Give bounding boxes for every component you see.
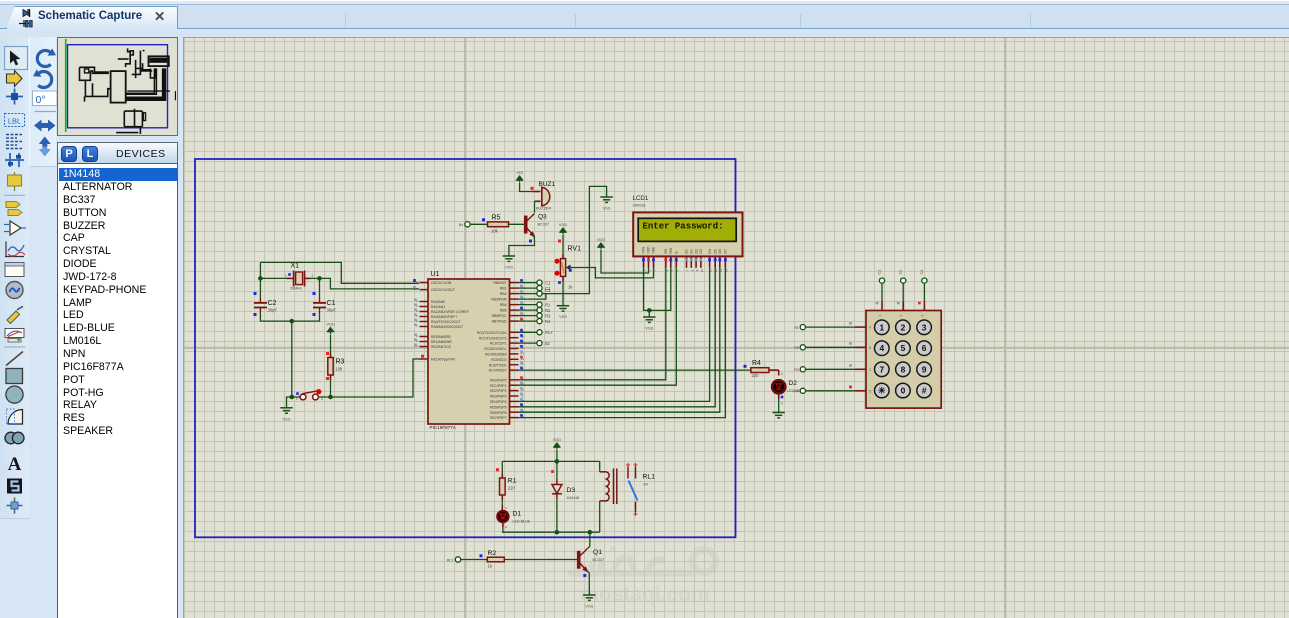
wire R3 bottom to MCLR net [330, 380, 332, 397]
wire crystal left [259, 262, 261, 298]
svg-text:RC4/SDI/SDA: RC4/SDI/SDA [485, 353, 507, 357]
toolbar separator 2 [4, 346, 25, 348]
svg-text:RB4: RB4 [500, 303, 507, 307]
toolbar graph mode [5, 242, 24, 257]
wire LCD D4 to U1 RD4 [519, 268, 710, 402]
svg-text:RE0/AN5/RD: RE0/AN5/RD [431, 335, 452, 339]
crystal X1 [287, 277, 294, 279]
terminal R3t [537, 313, 542, 318]
svg-text:RD2/PSP2: RD2/PSP2 [490, 389, 507, 393]
svg-text:VDD: VDD [597, 237, 606, 242]
svg-text:2: 2 [321, 397, 323, 401]
svg-text:Bz: Bz [545, 341, 550, 346]
wire VDD to rail [556, 450, 558, 461]
watermark mostaql [571, 546, 716, 606]
LCD pins [642, 246, 729, 272]
svg-text:MCLR/Vpp/THV: MCLR/Vpp/THV [431, 358, 456, 362]
wire RB6 to terminal R3t [519, 315, 537, 317]
ground top middle [600, 197, 612, 202]
capacitor C1 [313, 298, 326, 313]
svg-text:RB6/PGC: RB6/PGC [492, 314, 507, 318]
svg-text:D1: D1 [690, 249, 694, 253]
svg-text:R4: R4 [794, 390, 799, 394]
svg-text:RB3/PGM: RB3/PGM [491, 298, 506, 302]
svg-text:5: 5 [901, 343, 906, 353]
terminal C2 [537, 286, 542, 291]
minimap viewport line [65, 39, 67, 132]
power VDD relay rail [554, 443, 560, 450]
svg-text:RE2/AN7/CS: RE2/AN7/CS [431, 345, 452, 349]
wire R4 to D2 [769, 369, 779, 371]
svg-text:Bz: Bz [459, 223, 463, 227]
toolbar select mode (pressed) [5, 47, 28, 70]
svg-text:D5: D5 [713, 249, 717, 253]
svg-text:6: 6 [922, 343, 927, 353]
toolbar junction dot mode [6, 89, 23, 105]
node VSS RW junction [647, 308, 652, 313]
svg-text:RA1/AN1: RA1/AN1 [431, 305, 445, 309]
toolbar tape mode [5, 263, 24, 277]
svg-text:RC3/SCK/SCL: RC3/SCK/SCL [484, 347, 506, 351]
LED D2 [772, 380, 785, 393]
svg-text:VDD: VDD [326, 322, 335, 327]
resistor R4 [751, 368, 769, 373]
terminal BZ at R5 [465, 222, 470, 227]
wire C1 top branch [319, 278, 321, 298]
wire RV1 bottom to ground [562, 282, 564, 306]
svg-text:9: 9 [922, 364, 927, 374]
svg-text:RA5/AN4/SS/C2OUT: RA5/AN4/SS/C2OUT [431, 325, 463, 329]
toolbar wire label mode [5, 114, 25, 127]
ground Q3 [503, 256, 515, 261]
svg-text:RC2/CCP1: RC2/CCP1 [490, 342, 507, 346]
wire RB3 jog [519, 294, 546, 300]
svg-text:VSS: VSS [603, 206, 611, 211]
wire R4row to keypad [806, 390, 855, 392]
keypad terminal C3 column 3 [922, 278, 927, 283]
keypad terminal C2 column 2 [901, 278, 906, 283]
svg-text:OSC2/CLKOUT: OSC2/CLKOUT [431, 288, 455, 292]
wire C2 column [902, 284, 904, 302]
wire relay bottom rail [502, 531, 599, 533]
resistor R2 [487, 557, 504, 562]
keypad terminal R4 row D [800, 388, 805, 393]
keypad KEYPAD-PHONE body [866, 311, 941, 409]
node crystal right junction [317, 276, 322, 281]
svg-text:R2: R2 [794, 346, 799, 350]
svg-text:R3: R3 [336, 359, 345, 366]
wire Q3 emitter to ground [509, 236, 535, 256]
svg-text:C1: C1 [545, 280, 551, 285]
svg-text:220: 220 [508, 486, 516, 491]
wire LCD VSS RW to ground [644, 268, 671, 311]
svg-text:R2: R2 [545, 308, 551, 313]
toolbar component mode [7, 71, 23, 87]
wire RC7 to R4 [519, 369, 751, 371]
LED D1 LED-BLUE [497, 511, 508, 522]
wire +5V to buzzer [520, 183, 532, 192]
svg-text:R4: R4 [752, 360, 761, 367]
svg-text:Q3: Q3 [538, 214, 547, 221]
wire RLY terminal to R2 [461, 559, 488, 561]
wire R2 to keypad [806, 346, 855, 348]
toolbar rotate anticlockwise [38, 72, 52, 88]
svg-text:D2: D2 [694, 249, 698, 253]
svg-text:D3: D3 [567, 487, 576, 494]
svg-text:RB2: RB2 [500, 292, 507, 296]
toolbar device pin mode [14, 172, 16, 191]
svg-text:1: 1 [285, 274, 287, 278]
keypad terminal R2 row B [800, 345, 805, 350]
IC U1 PIC16F877A body [428, 279, 510, 424]
terminal RLY at R2 [455, 557, 460, 562]
power VDD for LCD [598, 243, 604, 250]
wire R3 to keypad [806, 368, 855, 370]
svg-text:4: 4 [879, 343, 884, 353]
svg-text:1: 1 [878, 315, 882, 317]
svg-text:VSS: VSS [642, 246, 646, 254]
svg-text:OSC1/CLKIN: OSC1/CLKIN [431, 281, 452, 285]
svg-text:RS: RS [664, 248, 668, 253]
svg-text:VDD: VDD [647, 246, 651, 254]
svg-text:C2: C2 [268, 300, 277, 307]
ground crystal circuit [280, 408, 292, 413]
wire R1 to keypad [806, 326, 855, 328]
svg-text:A: A [8, 454, 22, 475]
svg-text:C1: C1 [878, 270, 882, 275]
toolbar angle box [33, 91, 58, 106]
tab bar [0, 6, 1289, 29]
svg-text:8: 8 [901, 364, 906, 374]
svg-text:2: 2 [901, 322, 906, 332]
ground RV1 [557, 306, 569, 311]
terminal RLY [537, 330, 542, 335]
resistor R3 [330, 353, 332, 358]
wire D3 bottom [556, 499, 558, 533]
svg-text:D3: D3 [699, 249, 703, 253]
svg-text:10k: 10k [336, 367, 344, 372]
terminal C1 [537, 280, 542, 285]
resistor R5 [470, 223, 487, 225]
wire D2 to ground [778, 394, 780, 399]
svg-text:B: B [869, 346, 871, 350]
wire RB4 to terminal R1t [519, 304, 537, 306]
svg-text:+5V: +5V [516, 170, 524, 175]
svg-text:30pF: 30pF [327, 308, 337, 313]
minimap sheet rect [68, 45, 168, 128]
toolbar current probe mode [5, 329, 24, 338]
svg-text:LBL: LBL [8, 117, 21, 126]
svg-text:VDD: VDD [553, 437, 562, 442]
svg-text:RL1: RL1 [643, 474, 656, 481]
wire Q1 collector [588, 532, 590, 548]
svg-text:X1: X1 [291, 263, 300, 270]
toolbar terminal mode [6, 202, 20, 208]
wire R2 to Q1 base [504, 559, 577, 561]
svg-text:C3: C3 [920, 270, 924, 275]
svg-text:BUZ1: BUZ1 [539, 181, 556, 188]
svg-text:D4: D4 [708, 249, 712, 253]
svg-text:✳: ✳ [878, 386, 886, 396]
wire VDD to R3 [330, 335, 332, 354]
svg-text:K: K [505, 506, 507, 510]
schematic capture tab [6, 6, 178, 29]
wire RC0 to terminal RLY [519, 331, 537, 333]
terminal C3 [537, 291, 542, 296]
wire C2 C1 bottom rail [260, 313, 319, 322]
U1 right pins [477, 279, 524, 420]
tab diode icon [15, 7, 41, 29]
svg-text:RE1/AN6/WR: RE1/AN6/WR [431, 340, 452, 344]
wire C1 column [881, 284, 883, 302]
svg-text:RC6/TX/CK: RC6/TX/CK [489, 363, 507, 367]
svg-text:PIC16F877A: PIC16F877A [430, 425, 457, 430]
toolbar voltage probe mode [7, 311, 20, 324]
wire LCD D6 to U1 RD6 [519, 268, 720, 412]
svg-text:Q1: Q1 [593, 549, 602, 556]
node D3 bottom junction [555, 530, 560, 535]
wire LCD RS to U1 RD0 [519, 268, 666, 380]
toolbar 2D box [6, 369, 23, 384]
svg-text:LM016L: LM016L [633, 204, 647, 208]
svg-text:C1: C1 [327, 300, 336, 307]
keypad terminal R3 row C [800, 367, 805, 372]
svg-text:K: K [781, 372, 783, 376]
svg-text:RD0/PSP0: RD0/PSP0 [490, 378, 507, 382]
svg-text:D1: D1 [513, 511, 522, 518]
devices list [57, 163, 178, 618]
wire LCD E to U1 RD1 [519, 268, 677, 385]
power VDD above R3 [327, 328, 333, 335]
wire relay top rail [502, 460, 599, 462]
svg-text:RV1: RV1 [568, 246, 582, 253]
wire VDD to RV1 [562, 235, 564, 254]
svg-text:RW: RW [669, 247, 673, 253]
svg-text:RC5/SDO: RC5/SDO [491, 358, 506, 362]
keypad keys [875, 320, 932, 398]
svg-text:BC337: BC337 [538, 223, 550, 227]
svg-text:R4: R4 [545, 319, 551, 324]
terminal BZ [537, 341, 542, 346]
svg-text:RA3/AN3/VREF+: RA3/AN3/VREF+ [431, 315, 457, 319]
svg-text:RA2/AN2/VREF-/CVREF: RA2/AN2/VREF-/CVREF [431, 310, 469, 314]
toolbar 2D symbol [7, 479, 22, 494]
wire RC2 to terminal BZ [519, 342, 537, 344]
svg-text:R2: R2 [488, 550, 497, 557]
svg-text:VSS: VSS [585, 604, 593, 609]
ground Q1 [583, 595, 595, 600]
node Q1 collector junction [588, 530, 593, 535]
svg-text:BUZZER: BUZZER [536, 207, 551, 211]
svg-text:0: 0 [901, 386, 906, 396]
terminal R2t [537, 308, 542, 313]
svg-text:LED-BLUE: LED-BLUE [513, 520, 531, 524]
sheet border [195, 159, 736, 537]
wire C3 column [923, 284, 925, 302]
svg-text:RB7/PGD: RB7/PGD [492, 320, 507, 324]
svg-text:RC7/RX/DT: RC7/RX/DT [489, 369, 507, 373]
wire R1 to D1 [501, 500, 503, 505]
svg-text:20MHz: 20MHz [290, 287, 302, 291]
svg-text:3: 3 [922, 322, 927, 332]
node rail VDD junction [555, 459, 560, 464]
toolbar 2D circle [6, 386, 23, 403]
wire RB2 to terminal C3 [519, 293, 537, 295]
major grid lines [464, 38, 466, 618]
transistor Q1 BC337 [578, 549, 588, 572]
toolbar flip vertical [39, 137, 51, 147]
diode D3 1N4148 [552, 480, 562, 499]
svg-text:A: A [505, 525, 507, 529]
devices header [57, 142, 178, 165]
wire D1 to bottom rail [502, 522, 504, 527]
svg-text:RB1: RB1 [500, 287, 507, 291]
svg-text:R1: R1 [545, 302, 551, 307]
wire LCD D5 to U1 RD5 [519, 268, 716, 407]
svg-text:30pF: 30pF [268, 308, 278, 313]
node crystal left junction [258, 276, 263, 281]
svg-text:RC0/T1OSO/T1CKI: RC0/T1OSO/T1CKI [477, 331, 507, 335]
svg-text:#: # [922, 386, 927, 396]
toolbar 2D line [6, 352, 23, 366]
svg-text:R5: R5 [492, 215, 501, 222]
svg-text:BC337: BC337 [593, 558, 605, 562]
wire D3 top [556, 461, 558, 479]
resistor R1 [501, 474, 503, 478]
terminal R4t [537, 319, 542, 324]
keypad terminal C1 column 1 [879, 278, 884, 283]
relay RL1 coil [599, 461, 601, 471]
minimap schematic marks [111, 71, 126, 103]
svg-text:1: 1 [296, 397, 298, 401]
wire RB0 to terminal C1 [519, 282, 537, 284]
svg-text:2: 2 [312, 274, 314, 278]
svg-text:RLY: RLY [447, 558, 454, 562]
svg-text:R1: R1 [508, 478, 517, 485]
wire C3 net to top ground [542, 186, 606, 293]
wire RV1 wiper to LCD VEE [567, 268, 654, 278]
svg-text:D2: D2 [789, 380, 798, 387]
svg-text:VSS: VSS [645, 326, 653, 331]
svg-text:C2: C2 [899, 270, 903, 275]
svg-text:D6: D6 [718, 249, 722, 253]
svg-text:A: A [781, 401, 783, 405]
svg-text:LCD1: LCD1 [633, 195, 649, 202]
toolbar text script mode [6, 134, 22, 136]
svg-text:RB5: RB5 [500, 309, 507, 313]
potentiometer RV1 [562, 254, 564, 259]
svg-text:VSS: VSS [282, 416, 290, 421]
svg-text:RD4/PSP4: RD4/PSP4 [490, 400, 507, 404]
toolbar separator 1 [4, 194, 25, 196]
wire R1 top [501, 461, 503, 473]
svg-text:RA4/T0CKI/C1OUT: RA4/T0CKI/C1OUT [431, 320, 461, 324]
svg-text:3: 3 [920, 315, 924, 317]
ground LCD [643, 317, 655, 322]
svg-text:U1: U1 [431, 271, 440, 278]
svg-text:RD5/PSP5: RD5/PSP5 [490, 405, 507, 409]
toolbar gate mode [10, 221, 21, 235]
wire RB1 to terminal C2 [519, 287, 537, 289]
svg-text:Enter Password:: Enter Password: [643, 221, 724, 231]
svg-text:VSS: VSS [505, 265, 513, 270]
wire crystal right [309, 277, 320, 279]
wire RB5 to terminal R2t [519, 309, 537, 311]
svg-text:R1: R1 [794, 326, 799, 330]
overview minimap panel [57, 37, 178, 136]
capacitor C2 [254, 298, 267, 313]
svg-text:D0: D0 [685, 249, 689, 253]
svg-text:1N4148: 1N4148 [567, 496, 580, 500]
svg-text:VDD: VDD [559, 222, 568, 227]
svg-text:10k: 10k [491, 229, 499, 234]
toolbar flip horizontal [34, 120, 56, 132]
svg-text:RD3/PSP3: RD3/PSP3 [490, 395, 507, 399]
window top strip [0, 0, 1289, 5]
U1 left pins [414, 280, 469, 362]
svg-text:VSS: VSS [559, 314, 567, 319]
svg-text:VEE: VEE [652, 246, 656, 254]
power +5V [516, 176, 522, 183]
buzzer BUZ1 [532, 191, 541, 193]
relay RL1 switch [628, 467, 636, 512]
toolbar separator [35, 111, 57, 113]
button SW reset [300, 394, 306, 400]
svg-text:RD6/PSP6: RD6/PSP6 [490, 411, 507, 415]
svg-text:RA0/AN0: RA0/AN0 [431, 300, 445, 304]
toolbar 2D marker [7, 498, 23, 514]
wire OSC1 top route [260, 262, 419, 283]
wire Q1 emitter to ground [587, 571, 589, 595]
transistor Q3 BC337 [525, 214, 535, 237]
svg-text:7: 7 [879, 364, 884, 374]
keypad terminal R1 row A [800, 325, 805, 330]
wire rail to button [291, 321, 293, 397]
wire RB7 to terminal R4t [519, 320, 537, 322]
svg-text:2: 2 [899, 315, 903, 317]
wire OSC2 route [320, 278, 420, 289]
MCLR red square [421, 355, 424, 358]
toolbar 2D arc [8, 410, 23, 425]
svg-text:220: 220 [752, 373, 760, 378]
toolbar 2D closed path [5, 432, 17, 444]
node bottom rail junction [290, 319, 295, 324]
svg-text:0°: 0° [36, 94, 46, 106]
wire coil bottom to rail [599, 501, 601, 532]
toolbar generator mode [6, 282, 23, 299]
svg-text:RLY: RLY [545, 330, 553, 335]
svg-text:RC1/T1OSI/CCP2: RC1/T1OSI/CCP2 [479, 336, 507, 340]
svg-text:6V: 6V [644, 483, 649, 487]
ground D2 [773, 413, 785, 418]
svg-text:C3: C3 [545, 288, 551, 293]
svg-text:RB0/INT: RB0/INT [494, 281, 507, 285]
left mode toolbar [0, 37, 29, 519]
svg-text:R3: R3 [545, 313, 551, 318]
LCD screen [638, 218, 736, 241]
svg-text:mostaql.com: mostaql.com [580, 583, 710, 606]
wire button to MCLR pin [319, 359, 421, 397]
wire VDD to LCD VDD pin [601, 250, 649, 273]
terminal R1t [537, 302, 542, 307]
svg-text:10: 10 [700, 269, 704, 273]
svg-text:RD1/PSP1: RD1/PSP1 [490, 384, 507, 388]
wire button left to ground [287, 397, 301, 408]
svg-text:RD7/PSP7: RD7/PSP7 [490, 416, 507, 420]
svg-text:1: 1 [879, 322, 884, 332]
svg-text:D7: D7 [724, 249, 728, 253]
power VDD above RV1 [560, 228, 566, 235]
